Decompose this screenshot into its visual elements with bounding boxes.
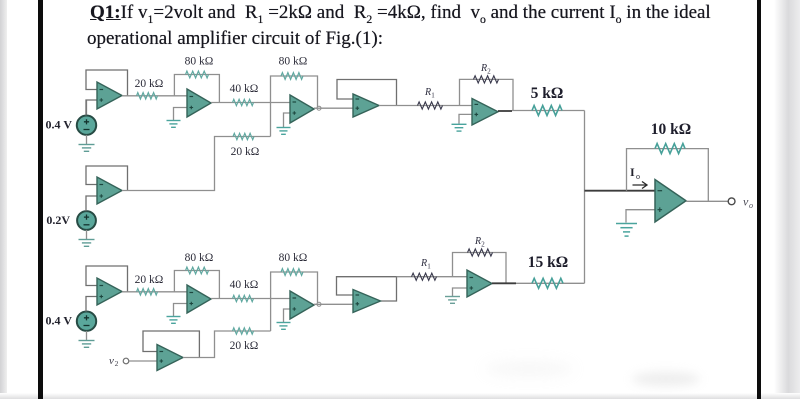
op-amp U7 (buffer) [97, 278, 122, 305]
ground V1 [79, 144, 95, 146]
wire U6 feedback loop [86, 166, 128, 191]
op-amp U1 (buffer) [97, 82, 122, 109]
wire U1 output to U2 inverting input [122, 95, 187, 97]
ground U2 [167, 120, 181, 122]
resistor R2 feedback (bottom) [468, 249, 493, 256]
op-amp U10 (buffer, v2 input) [157, 345, 183, 371]
svg-text:40 kΩ: 40 kΩ [230, 83, 259, 95]
ground U8 [167, 316, 181, 318]
ground U12 [445, 296, 460, 298]
svg-text:o: o [749, 201, 753, 210]
op-amp U8 (inverting) [187, 285, 211, 313]
op-amp U4 (buffer) [353, 94, 379, 117]
wire U3 feedback loop and summing node vertical [271, 76, 318, 137]
node pin at U9 output [317, 302, 321, 306]
wire U4 output to U5 inverting input [379, 105, 472, 107]
ground V3 [79, 340, 95, 342]
wire U7 output to U8 inverting input [122, 291, 187, 293]
terminal vo [728, 198, 735, 205]
resistor 40 kOhm (U8 to U9) [233, 295, 254, 301]
wire U2 noninverting input to ground [174, 108, 188, 121]
node pin at U3 output [317, 106, 321, 110]
op-amp U6 (buffer) [97, 177, 122, 204]
wire node A to U13 inverting input [585, 190, 656, 192]
ground U5 [452, 123, 467, 125]
wire U5 output to node A [512, 110, 585, 112]
svg-text:20 kΩ: 20 kΩ [135, 78, 164, 90]
wire U8 noninverting input to ground [174, 304, 188, 317]
wire U10 feedback loop [143, 331, 199, 358]
ground U13 [616, 223, 637, 225]
ground V2 [79, 239, 95, 241]
svg-text:15 kΩ: 15 kΩ [528, 254, 568, 271]
svg-text:20 kΩ: 20 kΩ [230, 340, 259, 352]
wire U11 output to U12 inverting input [397, 276, 468, 278]
voltage source V3 0.4V [77, 312, 96, 331]
wire V2 to ground [86, 230, 88, 239]
page frame left bar [38, 0, 43, 399]
svg-text:2: 2 [481, 241, 485, 249]
wire V1 to ground [86, 135, 88, 144]
wire U8 feedback loop [174, 271, 219, 299]
wire U12 noninverting input to ground [453, 288, 468, 296]
wire U5 output stub [498, 110, 512, 112]
resistor 10 kOhm feedback U13 [655, 144, 685, 154]
svg-text:0.4 V: 0.4 V [46, 314, 73, 328]
resistor 20 kOhm (v2 path) [233, 328, 254, 334]
wire U5 noninverting input to ground [459, 114, 472, 123]
voltage source V2 0.2V [77, 211, 96, 230]
wire U13 feedback loop [627, 149, 709, 202]
resistor 80 kOhm feedback U3 [281, 73, 303, 80]
wire V3 to U7 noninverting input [86, 297, 97, 312]
wire U2 output to U3 inverting input [211, 102, 290, 104]
svg-text:0.4 V: 0.4 V [46, 118, 73, 132]
svg-text:R: R [480, 63, 487, 74]
svg-text:R: R [474, 236, 481, 247]
wire U9 output to U11 noninverting input [314, 303, 353, 305]
svg-text:0.2V: 0.2V [46, 213, 70, 227]
svg-text:1: 1 [431, 92, 435, 100]
svg-text:v: v [109, 355, 114, 367]
op-amp U12 (inverting, gain R2/R1) [467, 270, 492, 297]
svg-text:2: 2 [487, 68, 491, 76]
wire U10 output up to U9 summing node [183, 331, 271, 358]
wire v2 terminal to U10 noninverting input [129, 360, 157, 362]
wire V2 to U6 noninverting input [86, 196, 97, 211]
wire U13 output to vo terminal [686, 200, 728, 202]
wire U8 output to U9 inverting input [211, 298, 290, 300]
svg-text:o: o [636, 172, 640, 181]
op-amp U9 (summing inverting) [290, 291, 314, 319]
op-amp U2 (inverting) [187, 89, 211, 117]
resistor R2 feedback (top) [474, 76, 499, 83]
svg-text:I: I [630, 165, 635, 179]
wire U7 feedback loop [86, 266, 128, 292]
wire U9 noninverting input to ground [284, 309, 291, 322]
resistor R1 (top) [418, 102, 443, 109]
wire U12 output stub [492, 282, 516, 284]
resistor 5 kOhm [532, 106, 562, 116]
arrow Io direction [633, 182, 648, 189]
svg-text:80 kΩ: 80 kΩ [185, 252, 214, 264]
resistor 80 kOhm feedback U8 [186, 267, 209, 274]
wire V1 top stub [86, 100, 88, 116]
terminal v2 [123, 358, 129, 364]
op-amp U11 (buffer) [353, 290, 381, 313]
voltage source V1 0.4V [77, 116, 96, 135]
wire U1 feedback loop [86, 70, 128, 96]
page frame right bar [757, 0, 761, 399]
svg-text:2: 2 [115, 359, 119, 368]
wire U6 output up to U3 summing node [122, 137, 271, 191]
resistor 15 kOhm [532, 278, 563, 288]
resistor R1 (bottom) [412, 273, 437, 280]
resistor 20 kOhm (U7 to U8) [137, 289, 158, 295]
wire U9 feedback loop and summing node vertical [271, 272, 318, 331]
wire U4 feedback loop [337, 80, 397, 106]
op-amp U13 (output stage) [655, 180, 686, 223]
resistor 20 kOhm (V2 path) [233, 133, 254, 139]
svg-text:R: R [420, 258, 427, 269]
wire U3 noninverting input to ground [284, 113, 291, 127]
resistor 80 kOhm feedback U9 [281, 269, 303, 276]
ground U9 [277, 322, 291, 324]
op-amp U5 (inverting, gain R2/R1) [472, 99, 498, 126]
svg-text:20 kΩ: 20 kΩ [231, 146, 260, 158]
wire U11 feedback loop [337, 277, 397, 301]
title text line 1 [90, 3, 711, 29]
svg-text:5 kΩ: 5 kΩ [531, 85, 564, 102]
wire U12 feedback loop [453, 253, 507, 284]
wire U5 feedback loop [460, 79, 514, 111]
wire node A vertical (5k join 15k) [584, 111, 586, 284]
wire U2 feedback loop [174, 75, 219, 103]
resistor 40 kOhm (U2 to U3) [233, 99, 254, 105]
svg-text:80 kΩ: 80 kΩ [185, 56, 214, 68]
svg-text:80 kΩ: 80 kΩ [279, 56, 308, 68]
wire U13 noninverting input to ground [626, 210, 655, 223]
wire U3 output to U4 noninverting input [314, 107, 353, 109]
svg-text:R: R [424, 87, 431, 98]
svg-text:80 kΩ: 80 kΩ [279, 252, 308, 264]
svg-text:10 kΩ: 10 kΩ [651, 121, 691, 138]
wire V1 to U1 noninverting input [86, 100, 97, 116]
wire U12 output to node A [516, 282, 585, 284]
resistor 80 kOhm feedback U2 [186, 71, 209, 78]
resistor 20 kOhm (U1 to U2) [137, 93, 158, 99]
op-amp U3 (summing inverting) [290, 95, 314, 123]
svg-text:40 kΩ: 40 kΩ [230, 279, 259, 291]
svg-text:20 kΩ: 20 kΩ [135, 274, 164, 286]
title text line 2 [87, 29, 383, 48]
svg-text:1: 1 [427, 263, 431, 271]
ground U3 [277, 127, 291, 129]
wire V3 to ground [86, 331, 88, 340]
